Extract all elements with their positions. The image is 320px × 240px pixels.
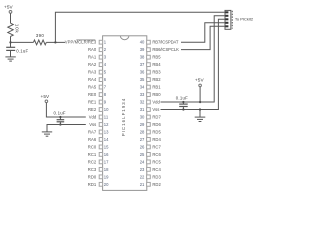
svg-text:14: 14 [104, 137, 109, 142]
pin 26 box [147, 145, 151, 149]
wire VPP to connector pin 1 [55, 12, 225, 42]
svg-text:Vss: Vss [152, 107, 159, 112]
svg-text:19: 19 [104, 174, 109, 179]
wire RB7/ICSPDAT to connector pin 4 [181, 23, 225, 42]
resistor R1 10k [8, 23, 13, 36]
power +5V right [195, 77, 205, 86]
svg-text:28: 28 [140, 129, 145, 134]
pin 27 box [147, 138, 151, 142]
wire Vss to connector pin 3 [161, 19, 226, 109]
op IC U1 PIC16LF1934 body [103, 36, 147, 191]
pin 35 box [147, 78, 151, 82]
svg-text:RE1: RE1 [88, 100, 97, 105]
pin 20 box [99, 182, 102, 186]
power +5V mid-left [41, 94, 51, 103]
pin 17 box [99, 160, 102, 164]
svg-text:RB3: RB3 [152, 70, 161, 75]
capacitor C1 0.1uF [6, 47, 28, 57]
svg-text:RA7: RA7 [88, 129, 97, 134]
svg-text:29: 29 [140, 122, 145, 127]
svg-text:RE2: RE2 [88, 107, 97, 112]
ground [42, 132, 52, 136]
pin 29 box [147, 123, 151, 127]
node [59, 123, 61, 125]
pin 11 box [99, 115, 102, 119]
wire RB6/ICSPCLK to connector pin 5 [181, 26, 225, 49]
pin 30 box [147, 115, 151, 119]
power +5V top-left [4, 5, 14, 14]
pin 18 box [99, 167, 102, 171]
svg-text:RA6: RA6 [88, 137, 97, 142]
svg-text:35: 35 [140, 77, 145, 82]
pin 6 box [99, 78, 102, 82]
pin 39 box [147, 48, 151, 52]
svg-text:RD7: RD7 [152, 115, 161, 120]
svg-text:RC3: RC3 [88, 167, 97, 172]
svg-text:0.1uF: 0.1uF [16, 48, 28, 53]
svg-text:27: 27 [140, 137, 145, 142]
svg-text:RA0: RA0 [88, 47, 97, 52]
svg-text:Vdd: Vdd [152, 100, 160, 105]
svg-text:RC4: RC4 [152, 167, 161, 172]
pin 36 box [147, 70, 151, 74]
svg-text:RA1: RA1 [88, 55, 97, 60]
svg-text:13: 13 [104, 129, 109, 134]
ground [195, 117, 206, 121]
svg-text:15: 15 [104, 144, 109, 149]
pin 16 box [99, 153, 102, 157]
wire Vss to ground [199, 110, 201, 118]
svg-text:RC2: RC2 [88, 159, 97, 164]
svg-text:RA4: RA4 [88, 77, 97, 82]
svg-text:34: 34 [140, 85, 145, 90]
wire Vss to ground [47, 124, 86, 131]
pin 1 box [99, 40, 102, 44]
svg-text:RB4: RB4 [152, 62, 161, 67]
svg-text:RB2: RB2 [152, 77, 161, 82]
svg-text:RD2: RD2 [152, 182, 161, 187]
svg-text:30: 30 [140, 115, 145, 120]
connector J1 to PICkit [225, 10, 254, 29]
pin 19 box [99, 175, 102, 179]
wire [46, 41, 65, 43]
svg-text:12: 12 [104, 122, 109, 127]
pin 2 box [99, 48, 102, 52]
pin 38 box [147, 55, 151, 59]
ground [5, 57, 15, 61]
svg-text:Vss: Vss [89, 122, 96, 127]
svg-text:16: 16 [104, 152, 109, 157]
svg-text:0.1uF: 0.1uF [54, 111, 66, 116]
pin 3 box [99, 55, 102, 59]
pin 4 box [99, 63, 102, 67]
pin 34 box [147, 85, 151, 89]
pin 10 box [99, 108, 102, 112]
svg-text:+5V: +5V [195, 77, 205, 82]
pin 31 box [147, 108, 151, 112]
svg-text:RD4: RD4 [152, 137, 161, 142]
pin 28 box [147, 130, 151, 134]
svg-text:RC5: RC5 [152, 159, 161, 164]
wire [10, 13, 12, 23]
svg-text:RD0: RD0 [88, 174, 97, 179]
pin 13 box [99, 130, 102, 134]
svg-text:33: 33 [140, 92, 145, 97]
node [182, 101, 184, 103]
svg-text:PIC16LF1934: PIC16LF1934 [121, 98, 126, 136]
overline of MCLR on pin1 label [76, 39, 95, 41]
svg-text:RC0: RC0 [88, 144, 97, 149]
svg-text:40: 40 [140, 40, 145, 45]
node [199, 108, 201, 110]
node [199, 101, 201, 103]
pin 37 box [147, 63, 151, 67]
svg-text:+5V: +5V [41, 94, 51, 99]
svg-text:22: 22 [140, 174, 145, 179]
svg-text:32: 32 [140, 100, 145, 105]
svg-text:24: 24 [140, 159, 145, 164]
svg-text:17: 17 [104, 159, 109, 164]
wire [11, 41, 34, 43]
pin 14 box [99, 138, 102, 142]
pin 12 box [99, 123, 102, 127]
pin 22 box [147, 175, 151, 179]
svg-text:RB0: RB0 [152, 92, 161, 97]
svg-text:10k: 10k [15, 24, 20, 34]
pin 23 box [147, 167, 151, 171]
svg-text:10: 10 [104, 107, 109, 112]
svg-text:25: 25 [140, 152, 145, 157]
svg-text:RC1: RC1 [88, 152, 97, 157]
svg-text:RD5: RD5 [152, 129, 161, 134]
svg-text:390: 390 [36, 33, 45, 38]
svg-text:RE0: RE0 [88, 92, 97, 97]
svg-text:VPP/MCLR/RE3: VPP/MCLR/RE3 [65, 40, 97, 45]
pin 15 box [99, 145, 102, 149]
svg-text:31: 31 [140, 107, 145, 112]
node riser junction [54, 41, 56, 43]
svg-text:RD3: RD3 [152, 174, 161, 179]
pin 24 box [147, 160, 151, 164]
svg-text:RB5: RB5 [152, 55, 161, 60]
capacitor C3 0.1uF [176, 96, 188, 110]
wire [46, 103, 85, 117]
pin 8 box [99, 93, 102, 97]
pin 5 box [99, 70, 102, 74]
node [59, 116, 61, 118]
pin 25 box [147, 153, 151, 157]
svg-text:37: 37 [140, 62, 145, 67]
svg-text:RD1: RD1 [88, 182, 97, 187]
pin 21 box [147, 182, 151, 186]
svg-text:To PICkit2: To PICkit2 [235, 17, 254, 22]
resistor R2 390 [33, 40, 46, 45]
svg-text:RC6: RC6 [152, 152, 161, 157]
node MCLR junction [9, 41, 11, 43]
svg-text:RB6/ICSPCLK: RB6/ICSPCLK [152, 47, 179, 52]
svg-text:38: 38 [140, 55, 145, 60]
svg-text:11: 11 [104, 115, 109, 120]
svg-text:36: 36 [140, 70, 145, 75]
svg-text:RA2: RA2 [88, 62, 97, 67]
svg-text:RC7: RC7 [152, 144, 161, 149]
capacitor C2 0.1uF [54, 111, 66, 125]
wire [199, 87, 201, 102]
svg-text:39: 39 [140, 47, 145, 52]
svg-text:21: 21 [140, 182, 145, 187]
svg-text:20: 20 [104, 182, 109, 187]
svg-text:23: 23 [140, 167, 145, 172]
svg-text:26: 26 [140, 144, 145, 149]
svg-text:RB1: RB1 [152, 85, 161, 90]
pin 40 box [147, 40, 151, 44]
svg-text:18: 18 [104, 167, 109, 172]
svg-text:RB7/ICSPDAT: RB7/ICSPDAT [152, 40, 178, 45]
pin 32 box [147, 100, 151, 104]
svg-text:0.1uF: 0.1uF [176, 96, 188, 101]
node [182, 108, 184, 110]
svg-text:+5V: +5V [4, 5, 14, 10]
pin 9 box [99, 100, 102, 104]
wire [10, 36, 12, 47]
svg-text:Vdd: Vdd [89, 115, 97, 120]
svg-text:RA5: RA5 [88, 85, 97, 90]
svg-text:RA3: RA3 [88, 70, 97, 75]
svg-text:RD6: RD6 [152, 122, 161, 127]
wire Vdd to connector pin 2 [161, 16, 226, 102]
pin 7 box [99, 85, 102, 89]
pin 33 box [147, 93, 151, 97]
